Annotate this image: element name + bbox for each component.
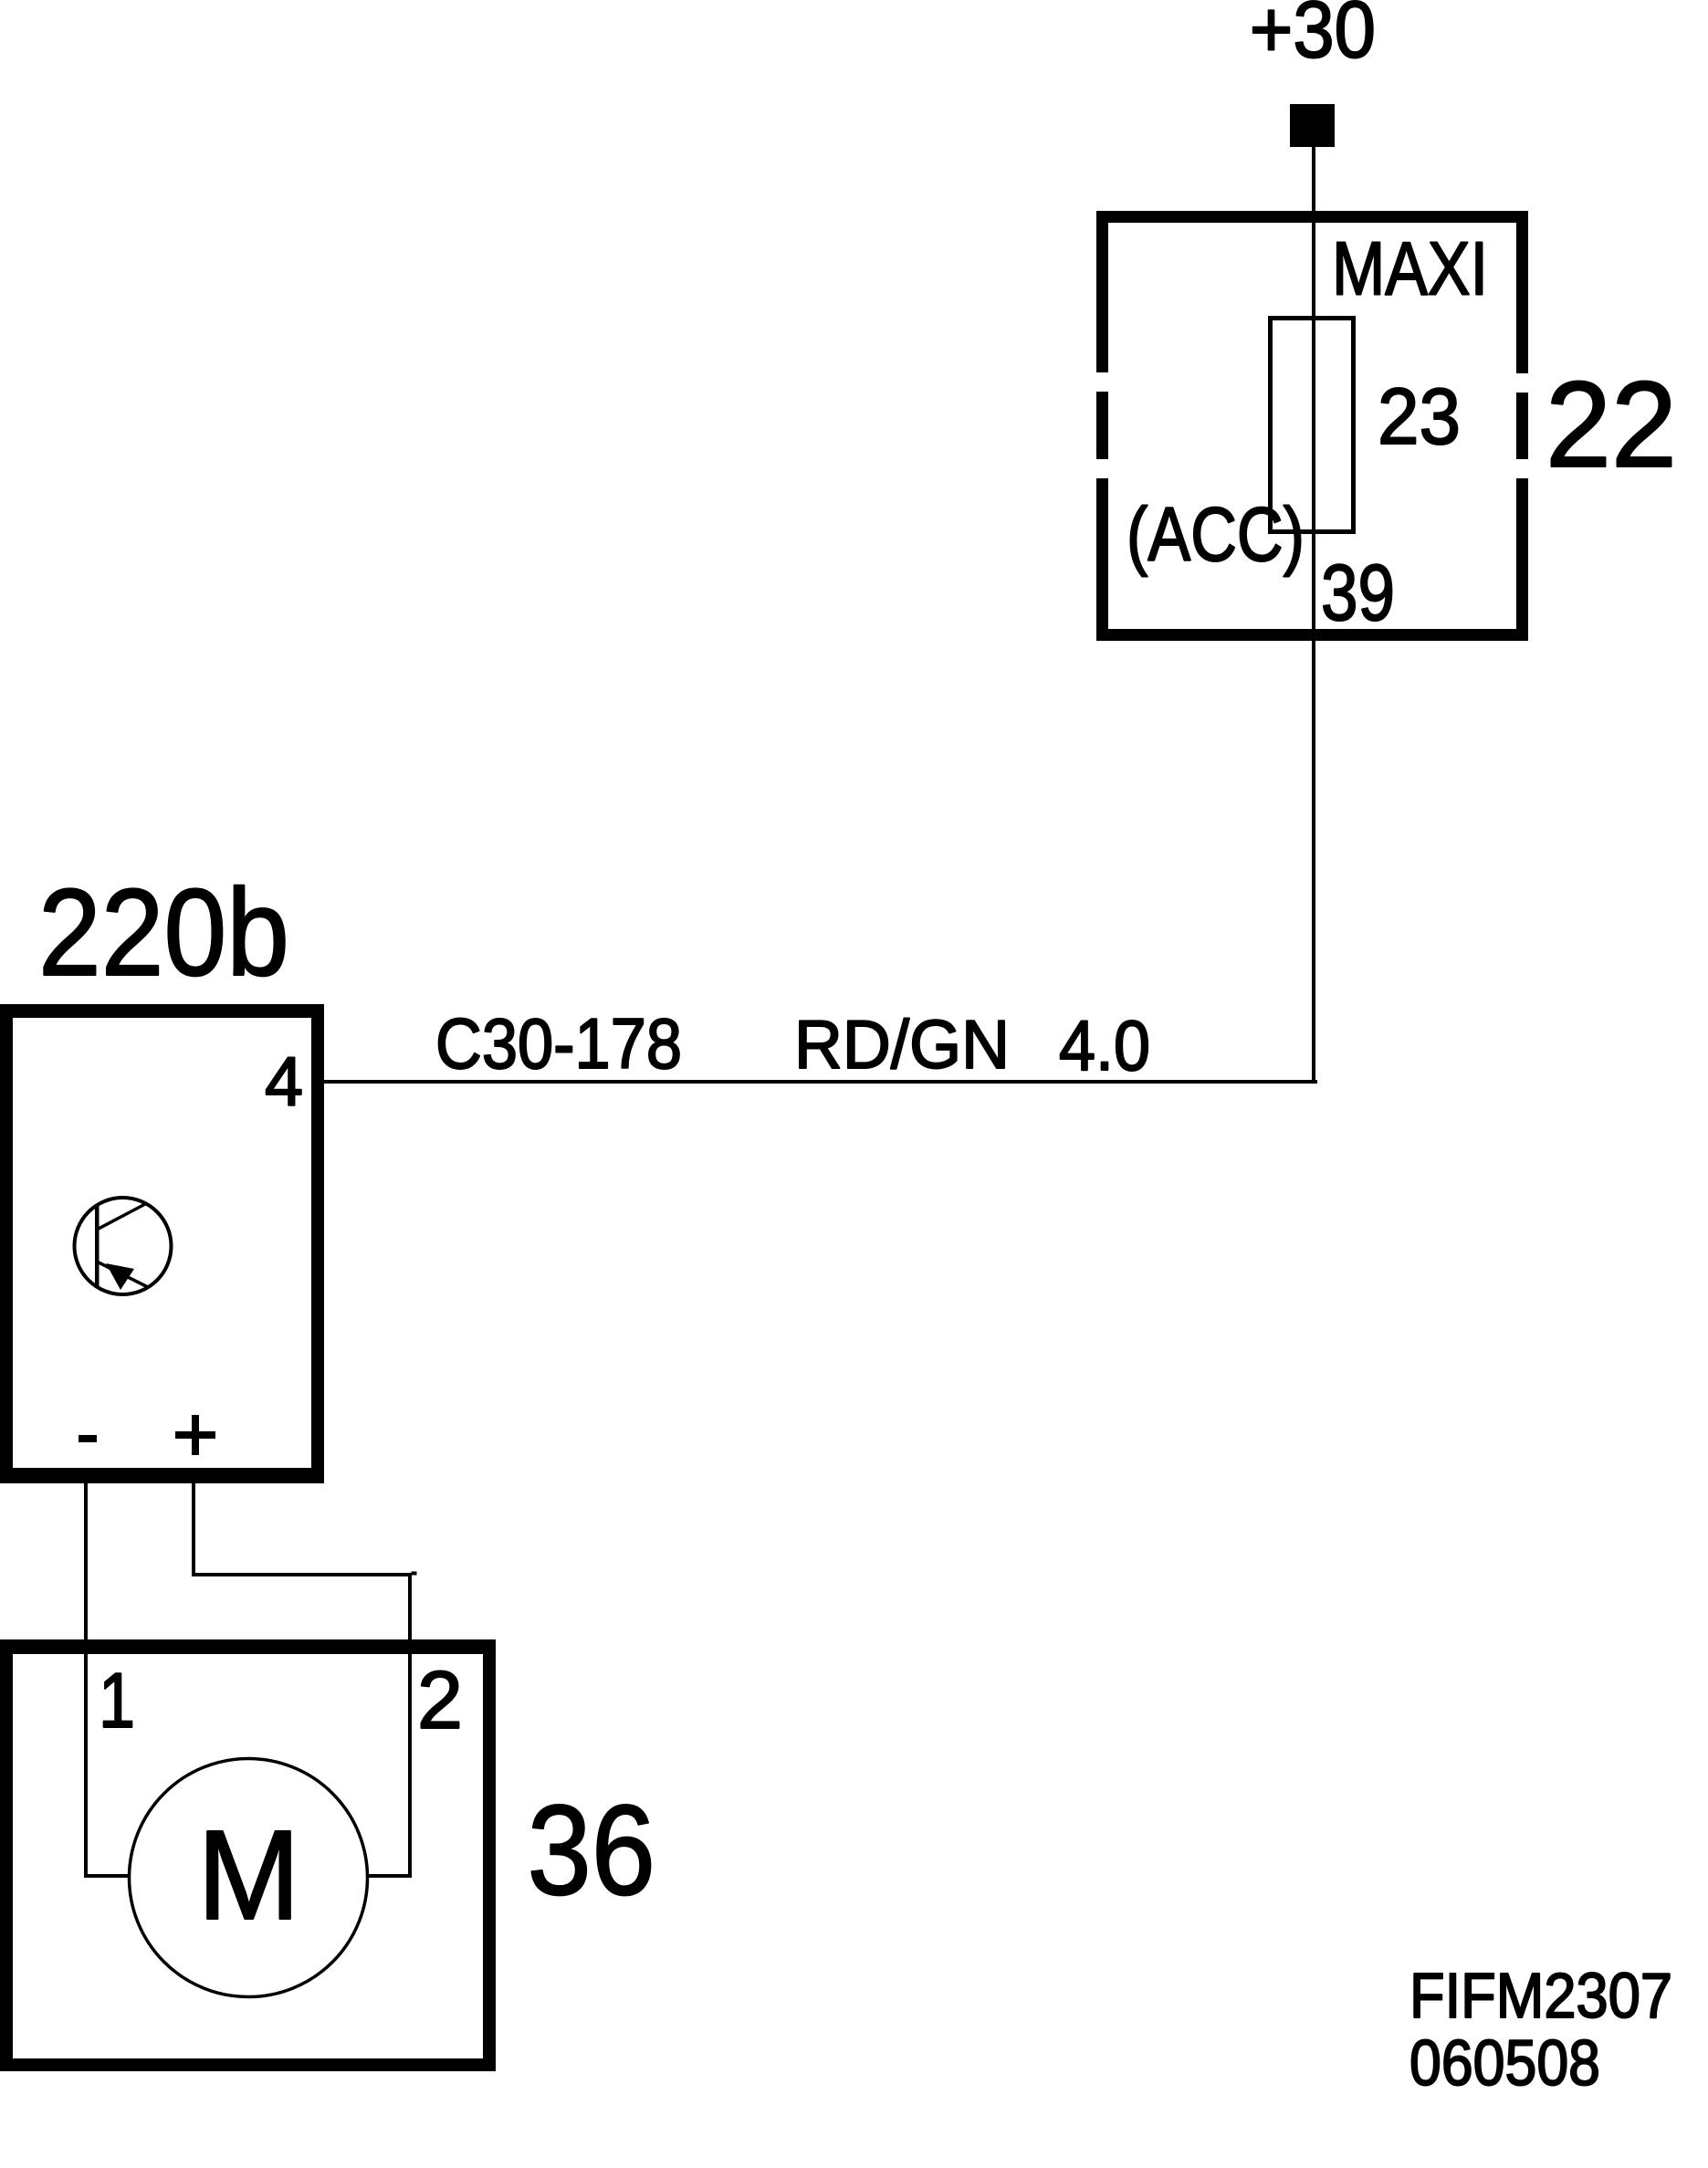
terminal square +30	[1290, 104, 1335, 147]
svg-text:FIFM2307: FIFM2307	[1409, 1960, 1672, 2031]
wire label 4.0	[1059, 1005, 1150, 1085]
svg-text:1: 1	[99, 1658, 135, 1744]
svg-text:C30-178: C30-178	[435, 1003, 682, 1084]
motor M circle symbol	[130, 1759, 368, 1997]
wire from +30 terminal down through fuse box to junction	[1312, 145, 1315, 1084]
svg-text:(ACC): (ACC)	[1126, 491, 1305, 577]
drawing date 060508	[1409, 2027, 1600, 2100]
wire horizontal from fuse pin 39 to 220b pin 4	[324, 1080, 1317, 1084]
wire 220b plus to motor pin 2	[192, 1480, 417, 1878]
wire 220b minus to motor pin 1	[84, 1480, 129, 1878]
pin label 4	[265, 1043, 303, 1121]
svg-text:060508: 060508	[1409, 2027, 1600, 2100]
wire label C30-178	[435, 1003, 682, 1084]
label MAXI	[1332, 225, 1488, 310]
label (ACC)	[1126, 491, 1305, 577]
pin label 2	[417, 1654, 463, 1745]
svg-text:MAXI: MAXI	[1332, 225, 1488, 310]
svg-text:+30: +30	[1250, 0, 1376, 74]
drawing number FIFM2307	[1409, 1960, 1672, 2031]
ECU box 220b outline	[0, 1004, 324, 1483]
label 22	[1546, 357, 1677, 493]
svg-text:4.0: 4.0	[1059, 1005, 1150, 1085]
fuse F23 symbol	[1271, 319, 1354, 532]
svg-text:23: 23	[1378, 372, 1461, 461]
pin label 1	[99, 1658, 135, 1744]
svg-text:39: 39	[1321, 549, 1395, 637]
svg-text:4: 4	[265, 1043, 303, 1121]
node +30 label	[1250, 0, 1376, 74]
motor box 36 outline	[0, 1639, 496, 2071]
svg-text:RD/GN: RD/GN	[794, 1006, 1010, 1083]
transistor PNP symbol	[75, 1198, 172, 1294]
label plus	[175, 1415, 215, 1455]
svg-text:22: 22	[1546, 357, 1677, 493]
fuse box 22 outline (dashed sides)	[1096, 211, 1528, 641]
svg-text:2: 2	[417, 1654, 463, 1745]
pin label 39	[1321, 549, 1395, 637]
label minus	[79, 1435, 97, 1442]
svg-text:M: M	[197, 1804, 300, 1946]
label 36	[528, 1778, 655, 1922]
label 220b	[38, 863, 289, 1001]
pin label 23	[1378, 372, 1461, 461]
svg-text:220b: 220b	[38, 863, 289, 1001]
svg-text:36: 36	[528, 1778, 655, 1922]
wire label RD/GN	[794, 1006, 1010, 1083]
